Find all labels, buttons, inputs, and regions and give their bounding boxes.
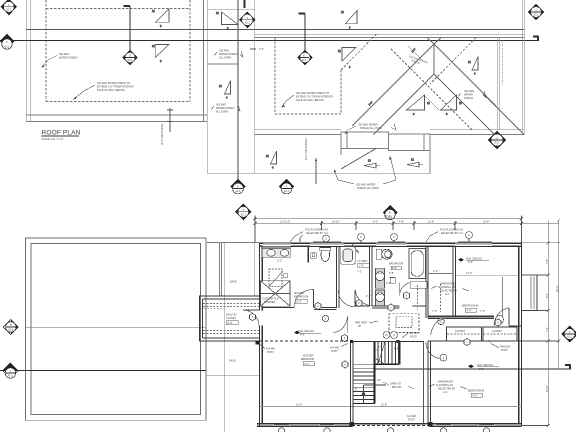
svg-text:D: D [129, 55, 131, 58]
closet dashed [440, 284, 442, 312]
house bottom wall [257, 424, 522, 427]
house top wall [260, 243, 522, 246]
section marker diamond bottom strip left [231, 179, 246, 195]
shower dashed ceiling box [269, 269, 282, 287]
porch valley diagonal [341, 149, 376, 170]
master bedroom east wall [351, 342, 353, 424]
section marker diamond above floor plan left [236, 204, 251, 220]
bath3 door arc lower right [400, 282, 413, 295]
west wall of bedroom2 [453, 246, 455, 316]
winder treads [375, 342, 386, 365]
svg-text:UP: UP [377, 379, 381, 382]
svg-text:10'-10": 10'-10" [332, 221, 340, 224]
section marker diamond mid left block [123, 50, 138, 66]
svg-text:H: H [10, 324, 12, 327]
ice and water shield all over note porch top [345, 124, 397, 134]
slope triangle porch narrow [266, 151, 277, 170]
svg-text:OAK CEILING: OAK CEILING [477, 364, 493, 367]
master bedroom door tag hexagon [342, 335, 348, 342]
3/4 dim tag right of strip [250, 48, 264, 51]
svg-text:CLOSET: CLOSET [358, 260, 368, 263]
bathtub right [409, 249, 425, 279]
svg-text:A2.1: A2.1 [6, 8, 12, 11]
ice and water shield all over note porch bottom with fork leaders [334, 157, 396, 191]
ice and water shield extend note left block [73, 82, 134, 100]
slope triangle right block upper band [341, 11, 357, 30]
interior dim line [455, 274, 518, 276]
hardwood note bedroom2 [431, 283, 469, 297]
svg-text:11'-6": 11'-6" [296, 404, 302, 407]
hardwood note bedroom1 [429, 381, 467, 395]
small fixture box bath3 [390, 278, 395, 284]
shower stall [341, 247, 356, 265]
ice and water shield extend note right block [282, 92, 333, 108]
master bathroom label [294, 292, 308, 303]
slope triangle right block below ridge [338, 48, 356, 70]
master bedroom door leaf and arc [347, 316, 349, 333]
right dimension lines [522, 219, 561, 427]
svg-text:19'-8": 19'-8" [546, 386, 549, 392]
slope triangles inside hip [407, 95, 463, 116]
svg-text:4'-8": 4'-8" [399, 221, 404, 224]
svg-text:8'-4": 8'-4" [546, 293, 549, 298]
svg-text:CLOSET: CLOSET [455, 330, 465, 333]
svg-text:BELOW: BELOW [392, 386, 402, 389]
toilet [376, 249, 392, 259]
right block dashed ice shield (left portion) [275, 38, 503, 114]
svg-text:3'-0": 3'-0" [373, 221, 378, 224]
door tag circle bedroom1 [440, 354, 447, 361]
svg-text:A2.1: A2.1 [245, 21, 251, 24]
center wall between baths [369, 246, 372, 306]
svg-text:SHIELD ALL OVER: SHIELD ALL OVER [357, 187, 379, 190]
oak ceiling note master [294, 330, 321, 337]
svg-text:C: C [393, 236, 395, 239]
svg-text:FP: FP [358, 325, 362, 328]
svg-text:7'-0": 7'-0" [357, 271, 362, 274]
slope triangle middle strip lower (narrow) [219, 81, 231, 100]
bedroom1 door arc [426, 342, 440, 359]
open to below note [383, 382, 414, 389]
door tag hexagon hall [315, 303, 321, 310]
ROOF PLAN title [42, 130, 81, 142]
svg-text:A2.1: A2.1 [127, 59, 133, 62]
stair posts [350, 340, 353, 343]
bedroom2 door tag circle [496, 316, 504, 324]
svg-text:7'-6": 7'-6" [546, 259, 549, 264]
svg-text:A2.1: A2.1 [8, 375, 14, 378]
4x4 post note mid [330, 344, 348, 354]
wic door tag hexagon [250, 314, 256, 321]
section marker diamond 1/A2.1 top-left [1, 0, 17, 15]
svg-text:(2'-0" OVERHANG): (2'-0" OVERHANG) [161, 123, 164, 145]
house right wall [519, 243, 522, 425]
window tag circles on top wall [323, 232, 473, 242]
slope triangle middle strip [216, 12, 238, 30]
section marker diamond right block left [298, 50, 313, 66]
garage section line upper [26, 326, 206, 328]
svg-text:8'-0": 8'-0" [392, 267, 397, 270]
custom tile shower [261, 281, 291, 307]
svg-text:C: C [6, 41, 8, 44]
section marker diamond right of plan [562, 326, 576, 342]
eave strip between garage and house [206, 243, 259, 432]
linen closet box under tub [410, 282, 427, 289]
svg-text:BATHROOM: BATHROOM [389, 263, 403, 266]
svg-text:SHIELD: SHIELD [464, 97, 473, 100]
svg-text:7'-6": 7'-6" [432, 310, 437, 313]
svg-text:13'-6": 13'-6" [483, 221, 489, 224]
svg-text:6'-8": 6'-8" [228, 322, 233, 325]
svg-text:G.C.: G.C. [443, 391, 448, 394]
svg-text:PRE FAB'T: PRE FAB'T [355, 322, 368, 325]
svg-text:9'-0": 9'-0" [467, 309, 472, 312]
ice and water shield all over note (middle strip upper) [215, 50, 244, 60]
slope triangle narrow right block [468, 57, 478, 76]
stair arrow [362, 385, 387, 403]
closet door tags [438, 318, 501, 326]
bedroom2 door arc [494, 308, 509, 326]
niche box [311, 253, 317, 259]
svg-text:SELECTED BY G.C.: SELECTED BY G.C. [306, 232, 329, 235]
svg-text:A2.1: A2.1 [533, 14, 539, 17]
svg-text:SELECTED BY G.C.: SELECTED BY G.C. [441, 232, 464, 235]
lower flight [353, 364, 375, 403]
svg-text:C: C [325, 238, 327, 241]
porch posts bottom [350, 422, 355, 427]
ridge tick and marker line right block [299, 14, 306, 52]
svg-text:POST: POST [408, 419, 415, 422]
svg-text:POST: POST [267, 351, 274, 354]
svg-text:EAVE: EAVE [230, 281, 237, 284]
svg-text:ALL OVER: ALL OVER [216, 111, 228, 114]
section line upper [26, 28, 524, 30]
section marker diamond garage left lower [3, 363, 18, 378]
section marker diamond garage left upper [3, 320, 18, 335]
svg-text:POST: POST [331, 350, 338, 353]
svg-text:A2.1: A2.1 [567, 336, 573, 339]
bedroom2 south wall [428, 316, 521, 326]
dashed overhang line left of wic [200, 308, 225, 310]
svg-text:11'-8": 11'-8" [428, 221, 434, 224]
svg-text:5'-8": 5'-8" [389, 272, 394, 275]
svg-text:A2.1: A2.1 [241, 213, 247, 216]
svg-text:C: C [360, 236, 362, 239]
ridge tick and marker line at x=130 [124, 6, 131, 51]
bottom window tag circles (partially cut) [278, 428, 489, 432]
svg-text:FACE OF WALL BELOW: FACE OF WALL BELOW [296, 99, 324, 102]
ice and water shield all over note (middle strip lower) [212, 104, 241, 114]
svg-text:17'-6": 17'-6" [466, 272, 472, 275]
wall opening for wic door [258, 311, 264, 326]
oak ceiling note bedroom1 [468, 364, 499, 371]
svg-text:8'-0": 8'-0" [300, 334, 305, 337]
svg-text:9'-0": 9'-0" [297, 300, 302, 303]
dashed linen closet line in bath [417, 285, 419, 310]
svg-text:1'-0": 1'-0" [433, 270, 438, 273]
hall tag hexagons lower [342, 339, 470, 369]
hip roof ridge and valleys [352, 38, 524, 135]
svg-text:FACE OF WALL BELOW: FACE OF WALL BELOW [97, 89, 125, 92]
master bath door (bottom) arc [338, 290, 355, 307]
middle strip verticals [207, 0, 255, 173]
garage section line lower (dark) [0, 370, 206, 372]
bedroom label [468, 390, 485, 398]
svg-text:G: G [286, 186, 288, 189]
bathroom label [389, 263, 403, 276]
master bath toilet [320, 247, 331, 261]
hip dim ticks 2'-0" [368, 46, 439, 110]
wic door arc [243, 310, 259, 326]
right top corner line to dim [522, 242, 561, 244]
section marker diamond bottom of hip [488, 131, 506, 149]
svg-text:A2.1: A2.1 [284, 190, 290, 193]
svg-text:CLOSET: CLOSET [492, 330, 502, 333]
svg-text:8'-0": 8'-0" [468, 261, 473, 264]
double pedestal sink wall [376, 268, 385, 306]
svg-text:A2.1: A2.1 [235, 190, 241, 193]
house left wall [260, 243, 263, 425]
svg-text:POST: POST [501, 349, 508, 352]
tile flooring note right [426, 229, 464, 243]
west wall [428, 341, 430, 424]
svg-text:9'-0": 9'-0" [473, 394, 478, 397]
svg-text:3'-4": 3'-4" [355, 387, 358, 392]
svg-text:A2.1: A2.1 [4, 46, 10, 49]
svg-text:7'-2": 7'-2" [546, 327, 549, 332]
leader arrow into shower room [352, 244, 359, 254]
garage outer wall [26, 238, 207, 420]
svg-text:13'-6 1/2": 13'-6 1/2" [280, 221, 291, 224]
master suite door arc (swings into bath) [294, 289, 314, 307]
tub room right wall [426, 246, 428, 318]
svg-text:2'-8": 2'-8" [366, 295, 371, 298]
tile flooring note left [290, 229, 329, 243]
svg-text:(2'-0" OVERHANG): (2'-0" OVERHANG) [305, 138, 308, 160]
slope triangle left block lower [152, 45, 169, 64]
svg-text:9'-0": 9'-0" [305, 363, 310, 366]
master bath east wall [336, 246, 339, 308]
master bath toilet nook stub wall [307, 246, 309, 262]
svg-text:A2.1: A2.1 [8, 329, 14, 332]
middle strip dark vertical section line [238, 0, 245, 179]
hall door arc above bedroom1 [431, 318, 446, 334]
svg-text:ROOF PLAN: ROOF PLAN [42, 130, 81, 137]
lower wing (porch roof) boxes [209, 132, 430, 173]
master bedroom label [301, 355, 314, 366]
upper flight [375, 342, 400, 365]
svg-text:7'-6": 7'-6" [480, 310, 485, 313]
section marker diamond middle strip [239, 12, 256, 29]
section marker diamond bottom strip right [279, 179, 294, 195]
svg-text:EAVE: EAVE [229, 360, 236, 363]
oak ceiling note bedroom2 [458, 258, 489, 265]
small wall stub [428, 273, 453, 275]
top wall windows [263, 242, 492, 246]
closet label [357, 260, 369, 274]
svg-text:A2.1: A2.1 [494, 142, 500, 145]
section line lower with end tick [0, 36, 539, 41]
hip roof dashed shield offsets [341, 34, 476, 130]
shower diagonal line to note [269, 271, 283, 287]
svg-text:SHIELD ALL OVER: SHIELD ALL OVER [360, 127, 382, 130]
section marker diamond left on section line [0, 34, 15, 50]
svg-text:2'-8": 2'-8" [386, 282, 391, 285]
right roof block top wall double line [255, 0, 525, 135]
railing line right of stairwell [423, 342, 425, 424]
svg-text:CLOSET: CLOSET [226, 317, 236, 320]
svg-text:47'-6": 47'-6" [385, 215, 391, 218]
svg-text:A2.1: A2.1 [301, 59, 307, 62]
section marker diamond top right [528, 4, 544, 20]
vanity with two sinks [262, 246, 290, 257]
light closet line bedroom2 [502, 277, 504, 316]
svg-text:SCALE: 1/4" = 1'-0": SCALE: 1/4" = 1'-0" [42, 138, 64, 141]
left roof block dashed ice-shield rectangle [46, 0, 190, 102]
bedroom2 label [462, 305, 479, 313]
section line right with tick [375, 365, 571, 370]
bath2 door arc [355, 289, 371, 306]
svg-text:28'-4": 28'-4" [556, 286, 559, 292]
svg-text:BATHROOM: BATHROOM [294, 296, 308, 299]
hall walls below baths [262, 306, 426, 309]
svg-text:POST: POST [410, 336, 417, 339]
svg-text:WATER SHIELD: WATER SHIELD [59, 57, 78, 60]
svg-text:2'-0": 2'-0" [277, 260, 282, 263]
left roof block outer walls [26, 0, 207, 122]
section dashed line through master bedroom [255, 340, 352, 342]
section marker diamond above floor plan right [383, 205, 398, 220]
ice and water shield note left [42, 53, 78, 68]
leader line down from porch [315, 158, 317, 184]
rotated ice and water shield note on hip [409, 55, 428, 65]
ice and water shield note right [458, 90, 486, 100]
railing post note [488, 340, 511, 352]
top dimension lines [254, 216, 559, 244]
slope arrow triangles porch [364, 159, 423, 169]
svg-text:2'-0": 2'-0" [359, 265, 364, 268]
bottom wall windows [273, 424, 495, 426]
svg-text:G.C.: G.C. [445, 293, 450, 296]
overhang tick at bottom of left block [167, 108, 173, 132]
4x4 wd post note bottom right [407, 415, 416, 422]
svg-text:3'-4": 3'-4" [259, 48, 264, 51]
svg-text:SHOWER: SHOWER [264, 301, 275, 304]
tag circle hall [322, 315, 328, 321]
svg-text:11'-6": 11'-6" [381, 404, 387, 407]
svg-text:ALL OVER: ALL OVER [219, 57, 231, 60]
post circles below fireplace [383, 332, 397, 339]
svg-text:BEDROOM: BEDROOM [301, 358, 314, 361]
post at wic corner [256, 341, 260, 345]
svg-text:BEDROOM #1: BEDROOM #1 [468, 390, 485, 393]
hall door tags hexagons [356, 292, 410, 311]
window tag leader ticks [326, 238, 469, 243]
slope triangle left block upper [152, 9, 169, 28]
svg-text:BEDROOM #2: BEDROOM #2 [462, 305, 479, 308]
